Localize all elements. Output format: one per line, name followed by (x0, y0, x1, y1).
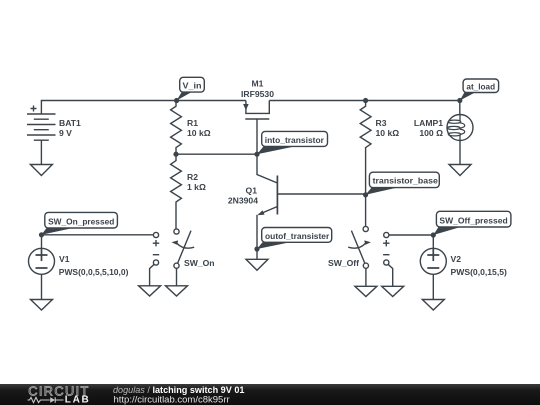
svg-text:R2: R2 (187, 172, 198, 182)
svg-text:into_transistor: into_transistor (265, 135, 325, 145)
svg-text:R1: R1 (187, 118, 198, 128)
svg-text:M1: M1 (252, 79, 264, 89)
ground (SW_On control) (139, 286, 161, 296)
wire transistor_base to SW_Off (365, 195, 367, 227)
wire control - to ground (388, 264, 393, 286)
footer text (113, 385, 244, 405)
svg-text:LAB: LAB (65, 394, 91, 405)
svg-text:SW_On: SW_On (184, 258, 215, 268)
source V2 (389, 235, 507, 310)
ground (under LAMP1) (449, 165, 471, 176)
ground (under V1) (31, 300, 53, 311)
svg-text:outof_transister: outof_transister (265, 231, 330, 241)
svg-text:BAT1: BAT1 (59, 118, 81, 128)
resistor R1 (171, 101, 182, 155)
svg-text:V1: V1 (59, 254, 70, 264)
resistor R2 (171, 154, 182, 229)
svg-text:LAMP1: LAMP1 (414, 118, 443, 128)
svg-text:Q1: Q1 (246, 185, 258, 195)
node R3 tap (363, 98, 368, 103)
wire junction to into_transistor node (176, 153, 257, 155)
switch SW_Off (328, 226, 404, 296)
node transistor_base label (366, 172, 440, 195)
wire control + to node (389, 234, 433, 236)
svg-text:at_load: at_load (466, 81, 495, 91)
logo CIRCUIT LAB (28, 383, 91, 405)
svg-text:SW_On_pressed: SW_On_pressed (48, 216, 114, 226)
svg-text:V2: V2 (451, 254, 462, 264)
wire battery negative (40, 140, 42, 164)
wire node to control + (42, 234, 154, 236)
transistor M1 (PMOS IRF9530) (241, 79, 274, 155)
resistor R3 (360, 101, 371, 195)
node R1/R2 junction (173, 152, 178, 157)
node outof_transister label (257, 228, 332, 250)
svg-text:SW_Off: SW_Off (328, 258, 359, 268)
wire top rail left (battery + to M1 source) (41, 101, 246, 115)
ground (under BAT1) (30, 165, 52, 176)
control terminals (153, 232, 158, 237)
wire Q1 base to transistor_base node (277, 193, 365, 195)
ground (SW_Off control) (382, 286, 404, 296)
wire emitter node to ground (256, 249, 258, 259)
lever (178, 231, 192, 264)
lamp LAMP1 (414, 101, 473, 141)
actuate arc arrow (348, 243, 365, 248)
node outof_transister dot (254, 246, 259, 251)
lever (351, 231, 365, 264)
svg-text:IRF9530: IRF9530 (241, 89, 274, 99)
svg-text:SW_Off_pressed: SW_Off_pressed (439, 215, 507, 225)
transistor Q1 (NPN 2N3904) (228, 154, 278, 249)
actuate arc arrow (177, 243, 194, 248)
node transistor_base dot (363, 192, 368, 197)
node V_in label (177, 77, 205, 100)
node at_load label (460, 79, 499, 101)
node into_transistor dot (254, 152, 259, 157)
svg-text:2N3904: 2N3904 (228, 195, 258, 205)
terminals (174, 229, 179, 234)
svg-text:9 V: 9 V (59, 128, 72, 138)
node SW_Off_pressed dot (431, 232, 436, 237)
node SW_On_pressed dot (39, 232, 44, 237)
control terminals (384, 232, 389, 237)
ground (under Q1 emitter) (246, 259, 268, 270)
wire lamp to ground (459, 141, 461, 165)
node into_transistor label (257, 131, 328, 154)
svg-text:http://circuitlab.com/c8k95rr: http://circuitlab.com/c8k95rr (114, 395, 230, 405)
svg-text:10 kΩ: 10 kΩ (376, 128, 400, 138)
node SW_On_pressed label (42, 212, 118, 234)
svg-text:10 kΩ: 10 kΩ (187, 128, 211, 138)
svg-text:transistor_base: transistor_base (373, 176, 439, 186)
source V1 (29, 235, 154, 310)
battery BAT1 (27, 106, 81, 141)
svg-text:V_in: V_in (183, 81, 202, 91)
terminals (363, 226, 368, 231)
svg-text:100 Ω: 100 Ω (419, 128, 443, 138)
svg-text:PWS(0,0,5,5,10,0): PWS(0,0,5,5,10,0) (59, 267, 129, 277)
ground (under V2) (422, 300, 444, 311)
wire switch to ground (176, 268, 178, 286)
svg-text:PWS(0,0,15,5): PWS(0,0,15,5) (451, 267, 507, 277)
node V_in dot (174, 98, 179, 103)
node SW_Off_pressed label (433, 211, 511, 235)
svg-text:R3: R3 (376, 118, 387, 128)
node at_load dot (457, 98, 462, 103)
svg-text:1 kΩ: 1 kΩ (187, 182, 206, 192)
wire control - to ground (150, 264, 155, 286)
wire switch to ground (365, 268, 367, 286)
svg-text:dogulas / latching switch 9V 0: dogulas / latching switch 9V 01 (113, 385, 244, 395)
wire top rail right (M1 drain to at_load) (269, 100, 460, 102)
switch SW_On (139, 229, 215, 296)
ground (under SW_Off) (355, 286, 377, 296)
ground (under SW_On) (166, 286, 188, 296)
